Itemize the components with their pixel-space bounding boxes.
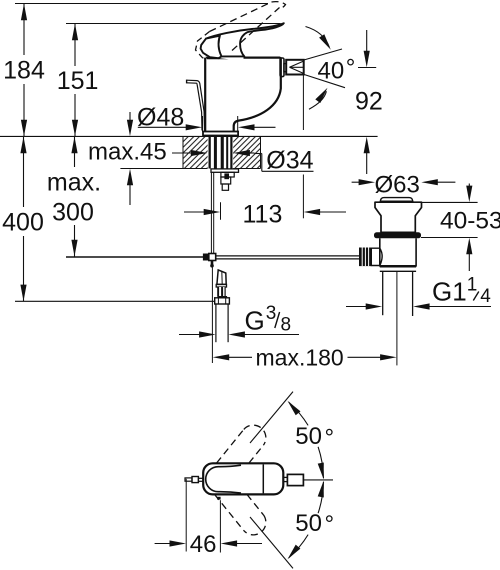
waste upper cup <box>375 202 422 232</box>
G3/8 nut top band <box>217 296 227 298</box>
node: hose end reference line (400) <box>15 300 215 302</box>
svg-text:92: 92 <box>355 88 383 116</box>
svg-text:Ø63: Ø63 <box>375 172 420 199</box>
dimension max.180 extension line left <box>211 268 213 364</box>
dimension max.180 extension line right <box>396 272 398 365</box>
svg-text:max.45: max.45 <box>88 139 167 166</box>
faucet mounting washer <box>211 169 239 172</box>
svg-text:400: 400 <box>2 209 44 237</box>
dimension 40-53 arrows <box>468 184 470 272</box>
svg-text:3: 3 <box>266 303 277 324</box>
dimension G1 1/4 arrows <box>346 306 491 308</box>
dimension max.300 vertical line <box>74 136 76 256</box>
supply pipe G3/8 <box>216 304 228 342</box>
junction lower pin <box>211 261 214 265</box>
faucet body outline <box>205 58 281 132</box>
hose collar <box>216 284 226 287</box>
faucet threaded shank bars <box>209 136 233 168</box>
lever knob (solid) <box>201 36 222 59</box>
50° lower arc arrows <box>289 482 324 558</box>
dimension max.180 line and arrows <box>226 356 383 358</box>
dimension max.300 arrows <box>71 137 77 257</box>
plan view: spout stem <box>283 476 287 478</box>
dimension Ø48 line and arrows <box>138 126 276 128</box>
dimension Ø34 arrows <box>172 152 262 155</box>
svg-text:4: 4 <box>480 286 491 307</box>
waste o-ring band <box>374 232 421 238</box>
50° upper arc arrows <box>289 402 324 478</box>
deck bottom line left <box>120 168 207 170</box>
spray angle lower line (40°) <box>304 74 345 87</box>
dimension 46 extension lines <box>186 479 220 553</box>
lever handle (solid) <box>206 23 284 56</box>
svg-text:8: 8 <box>281 315 292 336</box>
svg-text:max.: max. <box>47 169 101 197</box>
svg-text:Ø34: Ø34 <box>266 147 313 175</box>
dimension Ø63 arrows <box>352 181 456 183</box>
svg-text:°: ° <box>346 55 356 82</box>
svg-text:40: 40 <box>318 57 345 84</box>
plan view: lever outline <box>206 465 241 493</box>
dimension 400 arrows <box>20 137 26 301</box>
waste plug cap <box>380 198 413 202</box>
spout aerator connector <box>284 64 286 72</box>
dimension 113 arrows <box>184 211 346 213</box>
dimension 40-53 reference lines <box>421 202 478 237</box>
pop-up rod vertical (below shank) <box>211 172 213 253</box>
dimension 113 extension line (faucet centre) <box>220 202 222 219</box>
svg-text:113: 113 <box>243 201 283 229</box>
node: lever tip height reference line (151) <box>66 23 281 25</box>
dimension max.45 arrows <box>129 112 131 205</box>
handle swing upper dashed outline <box>217 425 266 463</box>
plan view: pop-up rod block <box>192 477 198 483</box>
waste valve body <box>380 238 416 265</box>
plan view: axis line <box>303 479 333 481</box>
pop-up rod horizontal (to waste) <box>216 256 359 259</box>
svg-text:°: ° <box>325 424 335 451</box>
plan view: pop-up rod tip <box>185 478 192 481</box>
dimension 151 vertical line <box>74 24 76 136</box>
lever shadow wedge <box>206 57 229 60</box>
waste knurled knob <box>359 248 371 267</box>
dimension Ø48 extension lines <box>203 116 238 132</box>
dimension 184 arrows <box>21 4 27 137</box>
40° upper arc arrow <box>306 27 330 48</box>
plan view: body capsule <box>203 463 283 494</box>
pop-up rod junction block <box>203 254 209 261</box>
dimension 92 upper arrow <box>366 30 368 55</box>
dimension 184 vertical line <box>23 4 25 136</box>
svg-text:°: ° <box>325 511 335 538</box>
deck bottom line right <box>233 168 260 170</box>
spray angle upper line (40°) <box>304 49 342 60</box>
lever raised dashed outline <box>210 2 286 51</box>
waste knob stem (white collar) <box>371 248 382 265</box>
dimension G3/8 arrows <box>179 334 299 336</box>
plan view: pivot tick <box>217 497 221 500</box>
node: raised-lever height reference line (184) <box>15 3 268 5</box>
40° lower arc arrow <box>309 91 326 109</box>
svg-text:1: 1 <box>467 275 478 296</box>
svg-text:151: 151 <box>57 67 99 95</box>
node: pop-up rod reference line (max.300) <box>66 256 203 258</box>
hose braid section <box>217 287 226 296</box>
svg-text:50: 50 <box>295 510 322 537</box>
svg-text:G: G <box>245 306 265 336</box>
svg-text:G1: G1 <box>432 277 467 307</box>
svg-text:40-53: 40-53 <box>440 207 500 234</box>
spout end face <box>280 58 284 77</box>
dimension 151 arrows <box>72 24 78 137</box>
dimension 46 line and arrows <box>155 543 262 545</box>
aerator flow cone <box>290 61 304 73</box>
waste tailpipe <box>383 271 413 316</box>
deck cross-section hatch left <box>183 137 208 168</box>
G3/8 nut <box>215 298 230 304</box>
deck mounting surface line <box>0 135 378 137</box>
handle swing lower dashed outline <box>215 494 266 534</box>
knob raised dashed outline <box>196 32 210 59</box>
svg-text:300: 300 <box>52 199 94 227</box>
supply hose top (flexible) <box>217 270 226 285</box>
dimension 400 vertical line <box>23 136 25 301</box>
plan view: body divider line <box>262 464 264 493</box>
svg-text:184: 184 <box>3 57 45 85</box>
svg-text:max.180: max.180 <box>256 344 344 370</box>
50° lower limit line <box>250 517 293 568</box>
label Ø34 with leader box <box>261 154 263 172</box>
spout aerator box <box>286 60 304 75</box>
faucet mounting nut steps <box>221 172 234 190</box>
faucet base flange <box>203 132 238 136</box>
deck cross-section hatch right <box>233 137 260 168</box>
svg-text:50: 50 <box>295 423 322 450</box>
plan view: aerator box <box>287 474 303 485</box>
pop-up knob rod (back of faucet) <box>187 80 205 130</box>
dimension 113 extension line (spout outlet) <box>302 75 304 218</box>
50° upper limit line <box>250 392 293 443</box>
waste body joint lines <box>380 267 416 272</box>
dimension 92 outlet tick <box>358 67 376 69</box>
dimension 92 lower arrow <box>366 150 368 174</box>
svg-text:46: 46 <box>190 531 217 558</box>
svg-text:Ø48: Ø48 <box>137 104 184 132</box>
